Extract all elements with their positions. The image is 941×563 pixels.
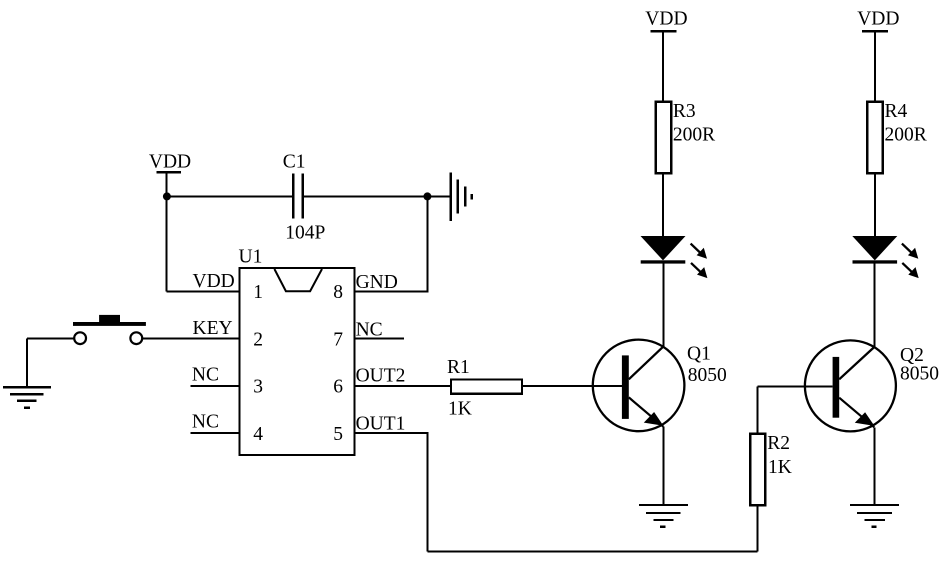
svg-text:1: 1 xyxy=(253,282,263,303)
svg-text:OUT2: OUT2 xyxy=(356,366,406,387)
svg-text:R4: R4 xyxy=(885,101,908,122)
svg-text:GND: GND xyxy=(356,272,398,293)
svg-text:KEY: KEY xyxy=(193,318,233,339)
svg-text:3: 3 xyxy=(253,377,263,398)
svg-text:C1: C1 xyxy=(283,152,306,173)
svg-text:5: 5 xyxy=(333,424,343,445)
svg-text:R2: R2 xyxy=(767,433,790,454)
svg-text:OUT1: OUT1 xyxy=(356,413,406,434)
svg-text:1K: 1K xyxy=(448,399,472,420)
svg-text:U1: U1 xyxy=(239,247,263,268)
svg-text:R1: R1 xyxy=(447,357,470,378)
svg-text:VDD: VDD xyxy=(857,8,899,29)
svg-text:NC: NC xyxy=(192,412,219,433)
svg-text:6: 6 xyxy=(333,377,343,398)
svg-text:8050: 8050 xyxy=(900,364,939,385)
svg-text:NC: NC xyxy=(356,320,383,341)
svg-text:VDD: VDD xyxy=(645,8,687,29)
svg-text:8050: 8050 xyxy=(688,365,727,386)
svg-text:8: 8 xyxy=(333,282,343,303)
svg-text:NC: NC xyxy=(192,364,219,385)
svg-text:200R: 200R xyxy=(673,125,715,146)
svg-text:200R: 200R xyxy=(885,125,927,146)
svg-text:1K: 1K xyxy=(768,457,792,478)
svg-text:7: 7 xyxy=(333,329,343,350)
svg-text:104P: 104P xyxy=(285,223,325,244)
svg-text:Q1: Q1 xyxy=(687,343,711,364)
svg-text:4: 4 xyxy=(253,424,263,445)
svg-text:2: 2 xyxy=(253,329,263,350)
svg-text:R3: R3 xyxy=(673,101,696,122)
svg-text:VDD: VDD xyxy=(149,152,191,173)
svg-text:VDD: VDD xyxy=(193,271,235,292)
